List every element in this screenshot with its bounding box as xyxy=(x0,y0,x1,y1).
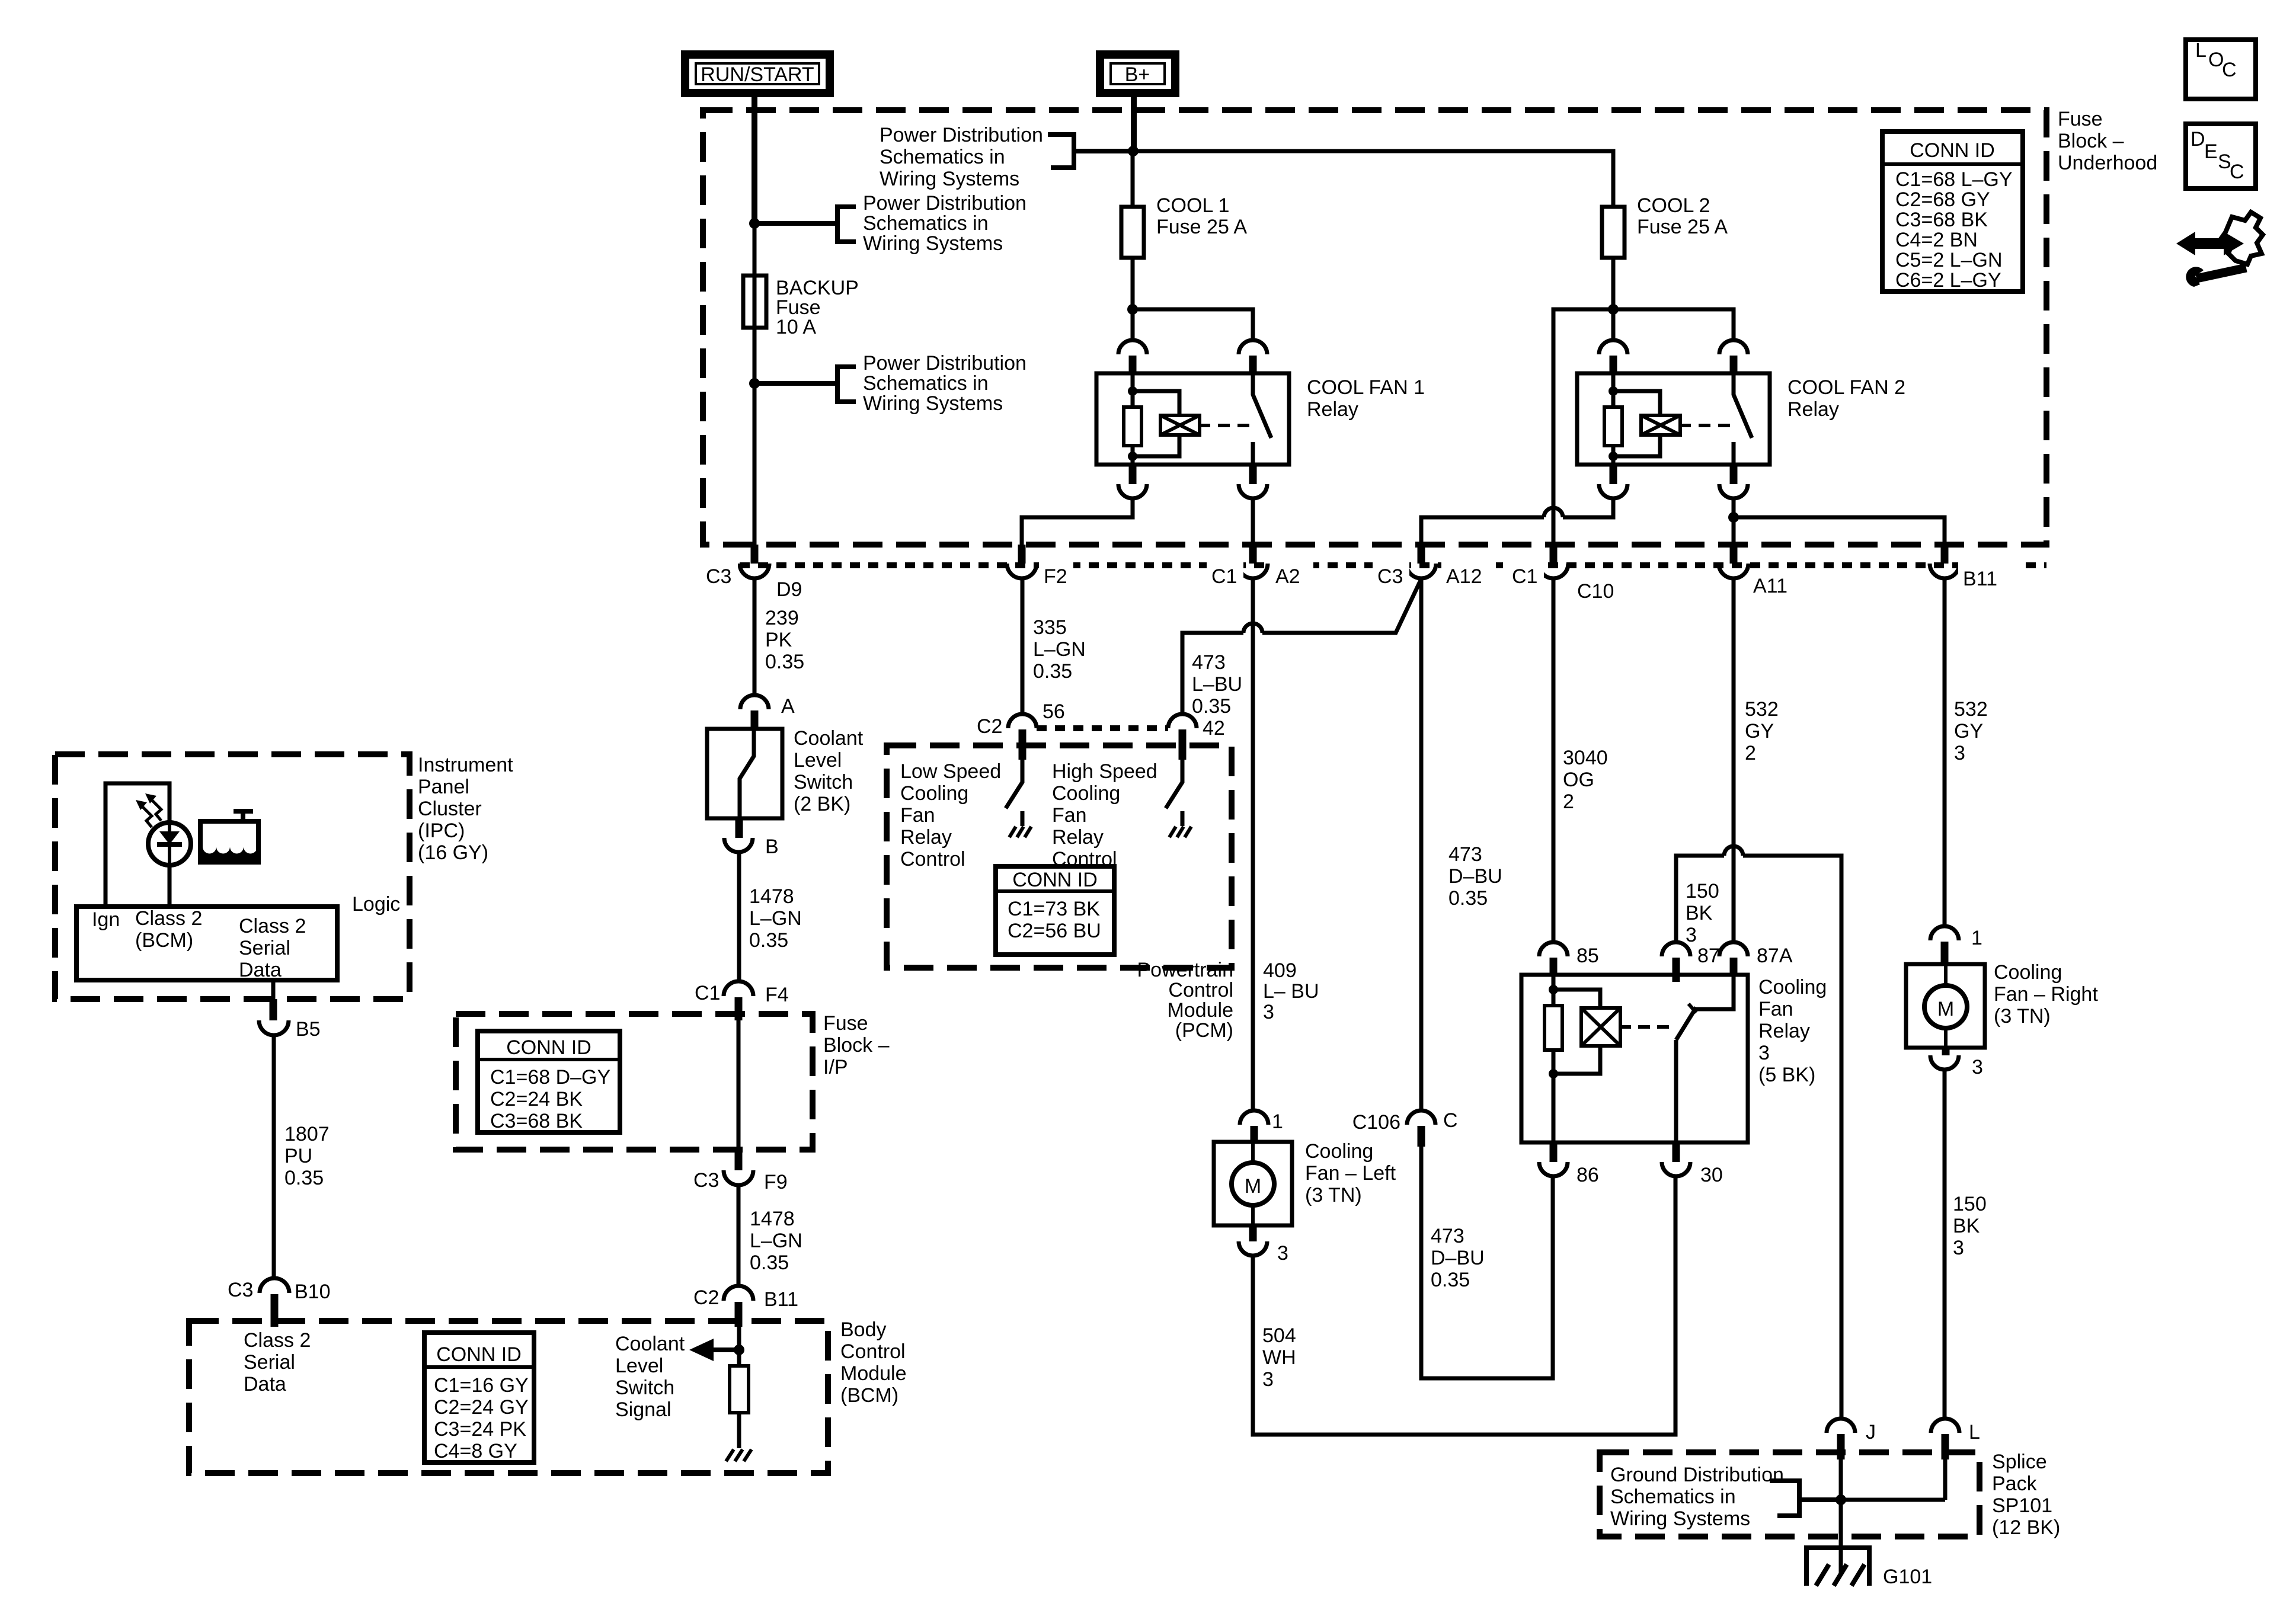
relay K1 coil resistor xyxy=(1124,373,1141,465)
svg-text:Schematics in: Schematics in xyxy=(1610,1486,1736,1508)
label 1478 L-GN 0.35 lower xyxy=(750,1208,802,1274)
svg-text:(BCM): (BCM) xyxy=(840,1384,898,1407)
svg-text:Underhood: Underhood xyxy=(2058,152,2157,174)
label COOL 2 Fuse 25 A xyxy=(1637,194,1728,238)
connector 3 below fan right xyxy=(1930,1048,1983,1078)
svg-text:Instrument: Instrument xyxy=(418,754,513,776)
svg-text:Switch: Switch xyxy=(615,1377,674,1399)
svg-text:L: L xyxy=(2195,39,2207,62)
wire 239 PK D9 to A xyxy=(753,578,757,695)
wire 504 WH fan left to relay3 pin30 xyxy=(1253,1176,1675,1435)
label Class 2 (BCM) xyxy=(135,907,202,952)
svg-text:30: 30 xyxy=(1700,1164,1723,1186)
connector C2 56 at PCM xyxy=(977,700,1065,760)
svg-text:409: 409 xyxy=(1263,959,1297,982)
label Power Distribution block 3 xyxy=(863,352,1027,415)
svg-text:PK: PK xyxy=(765,629,792,651)
LED emission arrows xyxy=(136,793,161,827)
label 150 BK 3 right xyxy=(1953,1193,1987,1259)
label 504 WH 3 xyxy=(1262,1324,1296,1391)
connector 3 below fan left xyxy=(1239,1225,1288,1265)
connector L at splice pack xyxy=(1931,1419,1980,1459)
svg-text:C1: C1 xyxy=(1211,565,1237,588)
svg-text:Module: Module xyxy=(1167,999,1233,1022)
relay K2 COOL FAN 2 box xyxy=(1577,373,1770,465)
svg-text:10 A: 10 A xyxy=(776,316,816,338)
svg-text:1478: 1478 xyxy=(749,885,794,908)
conn id table BCM xyxy=(424,1333,534,1462)
connector A11 inline xyxy=(1719,545,1787,597)
svg-text:Splice: Splice xyxy=(1992,1451,2047,1473)
svg-text:COOL FAN 1: COOL FAN 1 xyxy=(1307,376,1425,399)
svg-text:L–GN: L–GN xyxy=(750,1230,802,1252)
conn id table fuse block IP xyxy=(478,1031,620,1132)
svg-text:0.35: 0.35 xyxy=(765,651,804,673)
label COOL FAN 2 Relay xyxy=(1787,376,1905,421)
svg-text:C3: C3 xyxy=(693,1169,719,1192)
svg-text:C2: C2 xyxy=(977,715,1002,738)
connector 1 at fan right xyxy=(1930,926,1982,963)
svg-text:C3=68 BK: C3=68 BK xyxy=(490,1110,583,1132)
svg-text:Body: Body xyxy=(840,1318,887,1341)
svg-text:C1: C1 xyxy=(695,982,720,1004)
node junction dot on RUN/START wire (bracket 2 tap) xyxy=(749,218,760,229)
svg-text:A: A xyxy=(781,695,795,718)
svg-text:F2: F2 xyxy=(1044,565,1067,588)
label 1478 L-GN 0.35 upper xyxy=(749,885,802,952)
svg-text:Switch: Switch xyxy=(794,771,853,793)
svg-text:Level: Level xyxy=(615,1355,663,1377)
svg-text:SP101: SP101 xyxy=(1992,1494,2052,1517)
relay K3 coil xyxy=(1553,990,1669,1074)
label Ground Distribution Schematics in Wiring Systems xyxy=(1610,1464,1784,1530)
node junction dot splice xyxy=(1835,1494,1846,1505)
svg-text:C3: C3 xyxy=(706,565,731,588)
svg-text:B: B xyxy=(765,836,779,858)
svg-text:Relay: Relay xyxy=(1787,398,1839,421)
svg-text:Cooling: Cooling xyxy=(1994,961,2062,984)
relay K3 switch xyxy=(1676,975,1734,1142)
svg-text:(12 BK): (12 BK) xyxy=(1992,1516,2060,1539)
svg-text:56: 56 xyxy=(1043,700,1065,723)
svg-text:Power Distribution: Power Distribution xyxy=(863,192,1027,215)
wire relay K1 switch out to A2 xyxy=(1251,498,1255,545)
svg-text:3: 3 xyxy=(1953,1237,1964,1259)
wire 150 BK relay3 pin87 to J with hop over 87A line xyxy=(1676,846,1841,1419)
label Class 2 Serial Data in IPC xyxy=(239,915,306,981)
svg-text:Wiring Systems: Wiring Systems xyxy=(863,232,1003,255)
svg-text:(16 GY): (16 GY) xyxy=(418,841,488,864)
svg-text:C1=16 GY: C1=16 GY xyxy=(434,1374,529,1397)
svg-text:B11: B11 xyxy=(1963,568,1997,590)
label Fuse Block - IP xyxy=(823,1012,890,1078)
svg-text:Fuse: Fuse xyxy=(2058,108,2103,130)
relay K2 coil xyxy=(1613,391,1730,456)
svg-text:Fan: Fan xyxy=(1758,998,1793,1020)
signal arrow coolant level switch signal xyxy=(689,1339,739,1361)
svg-text:Control: Control xyxy=(1168,979,1233,1001)
wire B+ down xyxy=(1133,93,1134,207)
relay K2 bottom pin connectors xyxy=(1599,465,1748,498)
relay K1 bottom pin connectors xyxy=(1118,465,1267,498)
svg-text:L–BU: L–BU xyxy=(1192,673,1242,696)
node junction dot below COOL2 fuse xyxy=(1608,304,1619,315)
svg-text:Fuse: Fuse xyxy=(823,1012,868,1035)
power source box B+ xyxy=(1100,55,1175,93)
connector C3 F9 below fuse block IP xyxy=(693,1150,788,1193)
svg-text:Relay: Relay xyxy=(900,826,952,849)
svg-text:Data: Data xyxy=(244,1373,286,1395)
svg-text:Low Speed: Low Speed xyxy=(900,760,1001,783)
connector C1 C10 inline xyxy=(1507,545,1614,603)
svg-text:1: 1 xyxy=(1272,1110,1283,1133)
connector J at splice pack xyxy=(1827,1419,1876,1459)
bracket to Ground Distribution xyxy=(1770,1481,1841,1516)
connector C3 A12 inline xyxy=(1373,545,1496,588)
svg-text:Class 2: Class 2 xyxy=(135,907,202,930)
svg-text:B+: B+ xyxy=(1125,63,1150,86)
node junction dot on RUN/START wire (bracket 3 tap) xyxy=(749,378,760,389)
fuse block IP dashed box xyxy=(456,1014,813,1150)
svg-text:C3: C3 xyxy=(1377,565,1403,588)
svg-text:2: 2 xyxy=(1563,790,1574,813)
svg-text:Serial: Serial xyxy=(239,937,290,959)
dotted line PCM connector row xyxy=(1037,725,1168,731)
svg-text:Schematics in: Schematics in xyxy=(863,212,989,235)
connector 1 at fan left xyxy=(1240,1110,1283,1142)
connector C1 F4 at fuse block IP xyxy=(695,981,789,1020)
svg-text:CONN ID: CONN ID xyxy=(1910,139,1995,162)
svg-text:Control: Control xyxy=(840,1340,906,1363)
node junction dot B+ feed xyxy=(1128,146,1139,156)
svg-text:473: 473 xyxy=(1448,843,1482,866)
motor cooling fan right xyxy=(1906,964,1985,1048)
ground G101 xyxy=(1806,1537,1869,1586)
fuse BACKUP 10A xyxy=(743,110,766,561)
label 532 GY 3 xyxy=(1954,698,1988,764)
svg-text:PU: PU xyxy=(284,1145,312,1167)
fuse COOL 1 25A xyxy=(1121,207,1144,258)
wire ign loop in IPC xyxy=(105,783,170,907)
connector F2 inline xyxy=(1007,545,1073,588)
svg-text:Cluster: Cluster xyxy=(418,798,482,820)
relay K2 COOL FAN 2 top pin connectors xyxy=(1599,340,1748,373)
relay K2 switch xyxy=(1734,373,1752,465)
conn id table PCM xyxy=(996,866,1114,955)
svg-text:J: J xyxy=(1866,1421,1876,1443)
svg-text:(PCM): (PCM) xyxy=(1175,1019,1233,1042)
conn id table fuse block underhood xyxy=(1882,132,2023,292)
wire 532 GY B11 to fan right xyxy=(1943,578,1947,926)
wire relay K2 coil low to A12 with hop over C10 line xyxy=(1421,498,1613,545)
svg-text:Fan – Left: Fan – Left xyxy=(1305,1162,1396,1185)
wire 3040 OG C10 to relay3 pin85 xyxy=(1552,578,1556,942)
svg-text:D9: D9 xyxy=(776,578,802,601)
svg-text:239: 239 xyxy=(765,607,799,629)
svg-text:473: 473 xyxy=(1192,651,1226,674)
connector A at coolant level switch xyxy=(740,695,795,729)
coolant level switch contact xyxy=(740,729,754,818)
fuse COOL 2 25A xyxy=(1602,207,1625,258)
svg-text:0.35: 0.35 xyxy=(750,1251,789,1274)
label 239 PK 0.35 xyxy=(765,607,804,673)
label 3040 OG 2 xyxy=(1563,747,1608,813)
svg-text:F4: F4 xyxy=(765,984,789,1006)
svg-text:CONN ID: CONN ID xyxy=(506,1036,591,1059)
svg-text:Schematics in: Schematics in xyxy=(863,372,989,395)
wire 473 D-BU A12 to C106 xyxy=(1419,578,1424,1110)
svg-text:C3: C3 xyxy=(228,1279,253,1301)
svg-text:C2=68 GY: C2=68 GY xyxy=(1895,188,1990,211)
fuse block underhood dashed box xyxy=(703,110,2046,545)
svg-text:Class 2: Class 2 xyxy=(239,915,306,937)
DESC reference box xyxy=(2186,124,2256,188)
motor cooling fan left xyxy=(1214,1142,1292,1225)
svg-text:C2=24 GY: C2=24 GY xyxy=(434,1396,529,1419)
label 473 D-BU 0.35 lower xyxy=(1431,1225,1485,1291)
label 473 D-BU 0.35 upper xyxy=(1448,843,1502,910)
svg-text:C: C xyxy=(1443,1109,1458,1132)
label Power Distribution block 1 xyxy=(880,124,1043,190)
svg-text:(5 BK): (5 BK) xyxy=(1758,1064,1815,1086)
svg-text:1807: 1807 xyxy=(284,1123,330,1145)
connector B11 inline xyxy=(1930,545,2017,590)
relay K1 coil xyxy=(1133,391,1249,456)
svg-text:Cooling: Cooling xyxy=(1052,782,1120,805)
node junction dot A11/B11 xyxy=(1728,512,1739,523)
svg-text:Pack: Pack xyxy=(1992,1473,2038,1495)
svg-text:C1=68 L–GY: C1=68 L–GY xyxy=(1895,168,2013,191)
svg-text:L–GN: L–GN xyxy=(749,907,802,930)
svg-text:Fuse 25 A: Fuse 25 A xyxy=(1156,216,1247,238)
svg-text:C4=8 GY: C4=8 GY xyxy=(434,1440,517,1462)
resistor in BCM xyxy=(730,1366,749,1448)
svg-text:C6=2 L–GY: C6=2 L–GY xyxy=(1895,269,2001,292)
splice pack dashed box xyxy=(1600,1452,1980,1537)
svg-text:3: 3 xyxy=(1277,1242,1288,1265)
indicator LED telltale xyxy=(148,822,191,865)
svg-text:CONN ID: CONN ID xyxy=(436,1343,522,1366)
svg-text:B5: B5 xyxy=(296,1018,321,1041)
svg-text:0.35: 0.35 xyxy=(749,929,788,952)
svg-text:Relay: Relay xyxy=(1758,1020,1810,1042)
svg-text:3: 3 xyxy=(1954,742,1965,764)
connector B5 inline xyxy=(259,999,321,1041)
svg-text:Relay: Relay xyxy=(1052,826,1104,849)
connector C106 C inline xyxy=(1352,1109,1458,1147)
svg-text:1478: 1478 xyxy=(750,1208,795,1230)
svg-text:A11: A11 xyxy=(1753,575,1787,597)
wire B11 into BCM xyxy=(737,1327,741,1366)
label Fuse Block - Underhood xyxy=(2058,108,2157,174)
svg-text:D: D xyxy=(2191,128,2205,151)
svg-text:Level: Level xyxy=(794,749,842,772)
wire 1478 B to F4 xyxy=(737,852,741,982)
svg-text:D–BU: D–BU xyxy=(1448,865,1502,888)
svg-text:Wiring Systems: Wiring Systems xyxy=(880,168,1019,190)
svg-text:GY: GY xyxy=(1745,720,1774,742)
label 335 L-GN 0.35 xyxy=(1033,616,1086,683)
svg-text:BK: BK xyxy=(1953,1215,1980,1237)
label 150 BK 3 upper xyxy=(1686,880,1719,946)
label BACKUP Fuse 10 A xyxy=(776,277,859,338)
svg-text:OG: OG xyxy=(1563,769,1594,791)
label Low Speed Cooling Fan Relay Control xyxy=(900,760,1001,870)
svg-text:Data: Data xyxy=(239,959,282,981)
svg-text:Fan: Fan xyxy=(900,804,935,827)
label Cooling Fan Relay 3 (5 BK) xyxy=(1758,976,1827,1086)
svg-text:Block –: Block – xyxy=(2058,130,2124,152)
svg-text:3: 3 xyxy=(1972,1056,1983,1078)
svg-text:C5=2 L–GN: C5=2 L–GN xyxy=(1895,249,2003,271)
svg-text:C1=73 BK: C1=73 BK xyxy=(1008,898,1100,920)
svg-text:Wiring Systems: Wiring Systems xyxy=(1610,1507,1750,1530)
svg-text:D–BU: D–BU xyxy=(1431,1247,1485,1269)
svg-text:(3 TN): (3 TN) xyxy=(1994,1005,2051,1028)
bracket to Power Distribution 1 xyxy=(1048,135,1131,168)
bracket to Power Distribution 3 xyxy=(756,367,856,402)
coolant tank icon xyxy=(200,811,258,862)
svg-text:C1: C1 xyxy=(1512,565,1537,588)
svg-text:3: 3 xyxy=(1686,924,1697,946)
svg-text:532: 532 xyxy=(1954,698,1988,721)
svg-text:C3=68 BK: C3=68 BK xyxy=(1895,209,1988,231)
LOC reference box xyxy=(2186,39,2256,99)
svg-text:(3 TN): (3 TN) xyxy=(1305,1184,1362,1206)
svg-text:87: 87 xyxy=(1697,945,1720,967)
svg-text:A12: A12 xyxy=(1446,565,1482,588)
svg-text:Cooling: Cooling xyxy=(1758,976,1827,998)
connector 42 at PCM xyxy=(1168,714,1225,760)
svg-text:87A: 87A xyxy=(1757,945,1793,967)
svg-text:473: 473 xyxy=(1431,1225,1464,1247)
label Coolant Level Switch (2 BK) xyxy=(794,727,864,815)
svg-text:B10: B10 xyxy=(295,1281,331,1303)
svg-text:150: 150 xyxy=(1686,880,1719,902)
relay K1 COOL FAN 1 box xyxy=(1096,373,1289,465)
label Coolant Level Switch Signal xyxy=(615,1333,685,1421)
wire RUN/START down to C3 xyxy=(753,93,757,561)
high speed relay control switch xyxy=(1166,760,1182,826)
label 1807 PU 0.35 xyxy=(284,1123,330,1189)
svg-text:504: 504 xyxy=(1262,1324,1296,1347)
svg-text:Relay: Relay xyxy=(1307,398,1358,421)
label 473 L-BU 0.35 xyxy=(1192,651,1242,718)
svg-text:3: 3 xyxy=(1758,1042,1770,1064)
svg-text:0.35: 0.35 xyxy=(1033,660,1072,683)
svg-text:COOL 1: COOL 1 xyxy=(1156,194,1229,217)
svg-text:Fuse 25 A: Fuse 25 A xyxy=(1637,216,1728,238)
label Power Distribution block 2 xyxy=(863,192,1027,255)
wire COOL1 fuse to relay1 pins xyxy=(1133,258,1253,340)
svg-text:0.35: 0.35 xyxy=(1448,887,1488,910)
svg-text:M: M xyxy=(1245,1175,1261,1198)
svg-text:B11: B11 xyxy=(764,1288,798,1311)
ground high speed driver xyxy=(1169,827,1191,837)
svg-text:C106: C106 xyxy=(1352,1111,1400,1134)
svg-text:(BCM): (BCM) xyxy=(135,929,193,952)
svg-text:0.35: 0.35 xyxy=(1431,1269,1470,1291)
label Cooling Fan - Right (3 TN) xyxy=(1994,961,2098,1028)
svg-text:Ground Distribution: Ground Distribution xyxy=(1610,1464,1784,1486)
wire 1478 F9 to B11 xyxy=(737,1185,741,1286)
relay K3 top pin connectors 85 87 87A xyxy=(1539,942,1793,982)
label High Speed Cooling Fan Relay Control xyxy=(1052,760,1157,870)
PCM dashed box xyxy=(887,745,1232,968)
svg-text:Block –: Block – xyxy=(823,1034,890,1057)
svg-text:85: 85 xyxy=(1576,945,1599,967)
wire COOL2 junction branch to C10 xyxy=(1553,309,1613,545)
svg-text:Ign: Ign xyxy=(92,908,120,931)
relay K1 switch xyxy=(1253,373,1271,465)
svg-text:BK: BK xyxy=(1686,902,1713,924)
svg-text:Fan – Right: Fan – Right xyxy=(1994,983,2098,1006)
svg-text:0.35: 0.35 xyxy=(1192,695,1231,718)
wire 150 BK fan right to L xyxy=(1943,1070,1947,1419)
svg-text:C: C xyxy=(2230,161,2244,183)
label COOL 1 Fuse 25 A xyxy=(1156,194,1247,238)
svg-text:A2: A2 xyxy=(1275,565,1300,588)
svg-text:C1=68 D–GY: C1=68 D–GY xyxy=(490,1066,610,1089)
relay K2 coil resistor xyxy=(1604,373,1622,465)
svg-text:C4=2 BN: C4=2 BN xyxy=(1895,229,1978,251)
svg-text:Wiring Systems: Wiring Systems xyxy=(863,392,1003,415)
svg-text:Logic: Logic xyxy=(352,893,400,916)
relay K3 cooling fan relay 3 box xyxy=(1521,975,1748,1142)
svg-text:3: 3 xyxy=(1262,1368,1274,1391)
bracket to Power Distribution 2 xyxy=(756,207,856,242)
svg-text:Cooling: Cooling xyxy=(1305,1140,1373,1163)
wire 1807 PU B5 to B10 xyxy=(272,1035,276,1279)
wire relay K1 coil low to F2 xyxy=(1022,498,1133,545)
wire 473 L-BU 42 to A12 with hop over A2 line xyxy=(1182,579,1421,714)
label Class 2 Serial Data in BCM xyxy=(244,1329,311,1395)
ground low speed driver xyxy=(1009,827,1031,837)
svg-text:High Speed: High Speed xyxy=(1052,760,1157,783)
svg-text:Powertrain: Powertrain xyxy=(1137,959,1233,981)
svg-text:G101: G101 xyxy=(1883,1566,1932,1588)
svg-text:COOL 2: COOL 2 xyxy=(1637,194,1710,217)
label Splice Pack SP101 (12 BK) xyxy=(1992,1451,2060,1539)
svg-text:C2=24 BK: C2=24 BK xyxy=(490,1088,583,1110)
wire logic box to B5 xyxy=(271,980,276,1001)
svg-text:335: 335 xyxy=(1033,616,1067,639)
svg-text:42: 42 xyxy=(1203,717,1225,740)
wire 335 F2 to C2 xyxy=(1021,578,1025,714)
svg-text:E: E xyxy=(2204,140,2218,163)
svg-text:C10: C10 xyxy=(1577,580,1614,603)
svg-text:Power Distribution: Power Distribution xyxy=(880,124,1043,146)
svg-text:1: 1 xyxy=(1971,927,1982,949)
svg-text:C2: C2 xyxy=(693,1286,719,1309)
svg-text:150: 150 xyxy=(1953,1193,1987,1215)
power source box RUN/START xyxy=(685,55,830,93)
svg-text:Schematics in: Schematics in xyxy=(880,146,1005,168)
label 409 L-BU 3 xyxy=(1263,959,1319,1023)
IPC dashed box xyxy=(55,754,410,999)
svg-text:(IPC): (IPC) xyxy=(418,820,465,842)
wire B+ horizontal feed to COOL2 xyxy=(1076,151,1613,207)
svg-text:(2 BK): (2 BK) xyxy=(794,793,850,815)
connector C2 B11 at BCM xyxy=(693,1286,798,1327)
label Instrument Panel Cluster (IPC) (16 GY) xyxy=(418,754,513,864)
svg-text:3040: 3040 xyxy=(1563,747,1608,769)
svg-text:L–GN: L–GN xyxy=(1033,638,1086,661)
label Powertrain Control Module (PCM) xyxy=(1137,959,1233,1042)
connector C1 A2 inline xyxy=(1207,545,1313,588)
wire 409 A2 to fan left xyxy=(1251,578,1255,1110)
svg-text:Coolant: Coolant xyxy=(615,1333,685,1355)
